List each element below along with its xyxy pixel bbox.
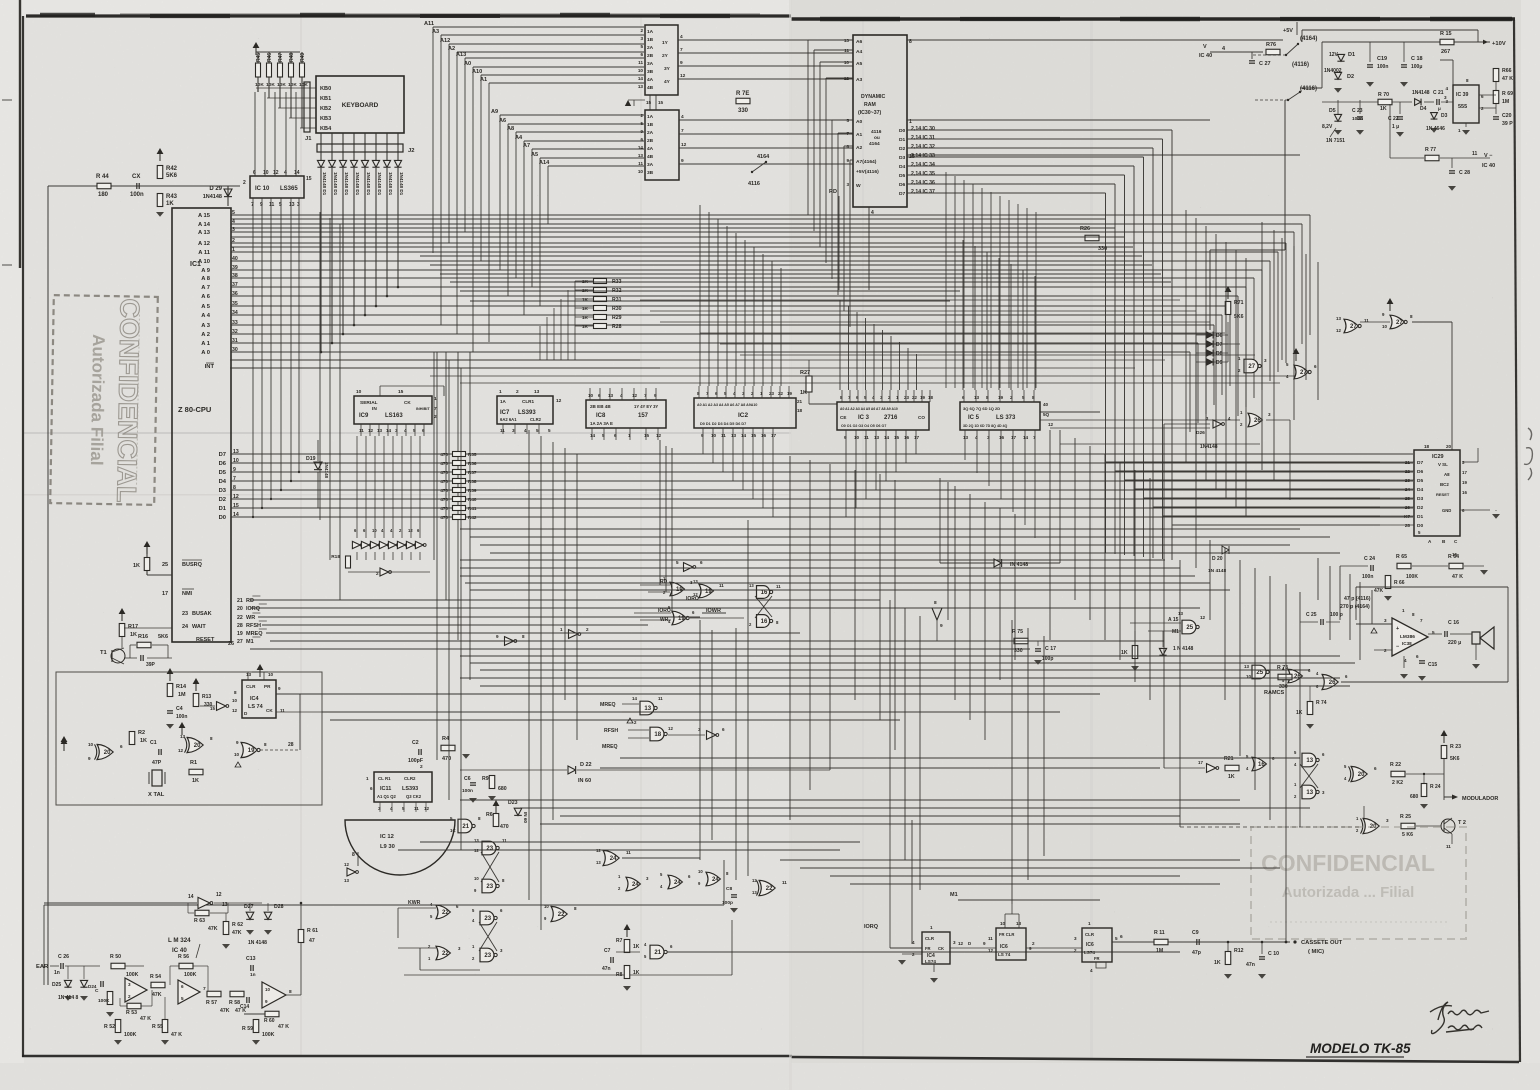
- R53 47K feedback: [127, 1003, 141, 1009]
- R26 330 above IC2: [1085, 235, 1099, 241]
- svg-text:R 57: R 57: [206, 1000, 217, 1006]
- svg-text:3: 3: [1074, 936, 1077, 941]
- svg-text:RFSH: RFSH: [604, 728, 618, 734]
- svg-text:1: 1: [499, 389, 502, 395]
- svg-text:4A: 4A: [647, 77, 654, 83]
- svg-text:5: 5: [640, 44, 643, 49]
- svg-text:KB1: KB1: [320, 96, 331, 102]
- R4 470: [441, 745, 455, 751]
- svg-text:A 12: A 12: [198, 241, 210, 247]
- svg-text:4: 4: [390, 806, 393, 811]
- svg-text:47: 47: [309, 938, 315, 944]
- R23 5K6: [1441, 746, 1447, 759]
- svg-text:PR: PR: [264, 684, 271, 689]
- svg-text:9: 9: [88, 756, 91, 761]
- svg-text:R29: R29: [612, 315, 622, 321]
- svg-text:1M: 1M: [1502, 99, 1509, 105]
- inverter 14 tape in: [198, 897, 210, 908]
- R7E 330 resistor: [736, 98, 750, 104]
- svg-text:C14: C14: [240, 1004, 249, 1010]
- svg-text:1Y 4Y EY 3Y: 1Y 4Y EY 3Y: [634, 404, 658, 409]
- OR gate 24a: [603, 850, 619, 865]
- svg-text:D1: D1: [219, 506, 227, 512]
- svg-text:IN 60: IN 60: [523, 812, 528, 823]
- svg-text:R 60: R 60: [264, 1018, 275, 1024]
- svg-text:13: 13: [289, 202, 295, 208]
- svg-text:IC 40: IC 40: [172, 947, 187, 954]
- C20 39P: [1493, 116, 1499, 118]
- svg-text:R7: R7: [616, 938, 623, 944]
- svg-text:100n: 100n: [1362, 574, 1373, 580]
- svg-text:D0: D0: [219, 515, 226, 521]
- svg-text:11: 11: [1472, 151, 1478, 157]
- NAND 13a: [1302, 753, 1316, 767]
- svg-text:19: 19: [237, 631, 243, 637]
- svg-text:1K: 1K: [1296, 710, 1303, 716]
- svg-text:D6: D6: [899, 182, 906, 188]
- R58 47K: [230, 991, 244, 997]
- svg-text:IC38: IC38: [1402, 641, 1412, 646]
- svg-text:12: 12: [556, 398, 562, 404]
- svg-text:CLR2: CLR2: [530, 417, 542, 422]
- svg-text:A4: A4: [515, 135, 523, 141]
- R27 1K left of IC3: [806, 376, 812, 392]
- svg-text:1K: 1K: [130, 632, 137, 638]
- svg-text:1: 1: [628, 433, 631, 438]
- svg-text:C 16: C 16: [1448, 620, 1459, 626]
- svg-text:R45: R45: [256, 53, 262, 62]
- svg-text:INHIBIT: INHIBIT: [416, 407, 430, 411]
- svg-text:8: 8: [289, 989, 292, 995]
- svg-text:19: 19: [920, 395, 925, 400]
- svg-text:27: 27: [1248, 364, 1255, 370]
- svg-text:21: 21: [797, 399, 803, 404]
- svg-text:16: 16: [761, 590, 768, 596]
- svg-text:11: 11: [844, 48, 849, 53]
- svg-text:40: 40: [1043, 402, 1049, 407]
- svg-text:R26: R26: [1080, 226, 1090, 232]
- svg-text:13: 13: [1306, 790, 1313, 796]
- svg-text:LS393: LS393: [402, 786, 418, 792]
- svg-text:15: 15: [646, 100, 652, 105]
- inverter 17 after RFSH: [707, 731, 716, 740]
- XOR 20 right: [1351, 766, 1367, 781]
- svg-text:A 0: A 0: [201, 350, 210, 356]
- svg-text:15: 15: [894, 435, 900, 440]
- svg-text:D7: D7: [219, 452, 226, 458]
- svg-text:A6: A6: [856, 39, 863, 45]
- svg-text:11: 11: [864, 435, 869, 440]
- svg-text:6: 6: [370, 786, 373, 791]
- svg-text:IC 5: IC 5: [968, 415, 980, 421]
- gate 2-1 inverter below: [380, 568, 389, 576]
- NAND 27c top: [1344, 319, 1358, 333]
- svg-text:6: 6: [614, 433, 617, 438]
- svg-text:A0 A1 A2 A3 A4 A5 A6 A7 A8 A9: A0 A1 A2 A3 A4 A5 A6 A7 A8 A9 A10: [840, 407, 898, 411]
- svg-text:D1: D1: [1417, 514, 1423, 520]
- svg-text:R17: R17: [128, 624, 138, 630]
- svg-text:9: 9: [681, 158, 684, 164]
- keyboard column lines to J2: [320, 133, 322, 160]
- svg-text:16: 16: [1462, 490, 1467, 495]
- svg-text:R 77: R 77: [1425, 147, 1436, 153]
- R13 330: [193, 694, 199, 707]
- horizontal lines interleaved in address band: [231, 218, 1106, 220]
- svg-text:R14: R14: [176, 684, 187, 690]
- svg-text:1B: 1B: [647, 37, 654, 43]
- svg-text:12: 12: [1336, 328, 1341, 333]
- svg-text:27: 27: [1350, 324, 1357, 330]
- svg-text:12V: 12V: [1329, 52, 1339, 58]
- svg-text:3: 3: [640, 36, 643, 41]
- svg-text:8: 8: [210, 736, 213, 741]
- svg-text:14: 14: [741, 433, 747, 438]
- clock output dashed to CPU pin 6: [260, 749, 300, 751]
- svg-text:1: 1: [560, 627, 563, 632]
- svg-text:13: 13: [638, 84, 644, 89]
- svg-text:O0 O1 O2 O3 O4 O5 O6 O7: O0 O1 O2 O3 O4 O5 O6 O7: [841, 424, 886, 428]
- svg-text:10K: 10K: [288, 82, 297, 88]
- svg-text:3: 3: [1386, 818, 1389, 823]
- svg-text:24: 24: [712, 877, 719, 883]
- svg-text:20: 20: [194, 743, 201, 749]
- svg-text:2Y: 2Y: [662, 53, 669, 59]
- svg-text:LS 373: LS 373: [996, 415, 1016, 421]
- svg-text:CLR: CLR: [1085, 932, 1095, 937]
- svg-text:17: 17: [162, 591, 168, 597]
- svg-text:IC 40: IC 40: [1482, 163, 1495, 169]
- svg-text:9: 9: [983, 941, 986, 946]
- svg-text:R 69: R 69: [1502, 91, 1513, 97]
- svg-text:100 p: 100 p: [1330, 612, 1343, 618]
- svg-text:R 25: R 25: [1400, 814, 1411, 820]
- svg-text:CK: CK: [938, 946, 944, 951]
- inverter 12-13 under arc: [347, 868, 356, 876]
- svg-text:17: 17: [914, 435, 920, 440]
- svg-text:13: 13: [596, 860, 601, 865]
- svg-text:47 p (4116): 47 p (4116): [1344, 596, 1371, 602]
- svg-text:12: 12: [680, 73, 686, 79]
- svg-text:R 75: R 75: [1012, 629, 1023, 635]
- svg-text:330: 330: [738, 108, 749, 114]
- svg-text:28: 28: [288, 742, 294, 748]
- R17 1K: [119, 624, 125, 637]
- svg-text:1K: 1K: [192, 778, 199, 784]
- D23 diode IN60: [514, 808, 522, 815]
- svg-text:1K: 1K: [166, 201, 174, 207]
- XOR gate 22d right: [759, 880, 775, 895]
- svg-text:10: 10: [638, 169, 644, 174]
- svg-text:19: 19: [998, 395, 1004, 400]
- right scanned page slightly darker: [791, 0, 1522, 1090]
- svg-text:47K: 47K: [208, 926, 218, 932]
- svg-text:7: 7: [681, 128, 684, 134]
- svg-text:C 10: C 10: [1268, 951, 1279, 957]
- svg-text:D6: D6: [1417, 469, 1423, 475]
- svg-text:ou: ou: [874, 136, 880, 141]
- svg-text:8: 8: [264, 742, 267, 747]
- svg-text:2716: 2716: [884, 415, 898, 421]
- svg-text:A9: A9: [491, 109, 498, 115]
- svg-text:1K: 1K: [633, 970, 640, 976]
- svg-text:A14: A14: [539, 160, 550, 166]
- svg-text:R 24: R 24: [1430, 784, 1441, 790]
- C10 47n: [1259, 956, 1265, 958]
- svg-text:11: 11: [638, 60, 643, 65]
- svg-text:39P: 39P: [146, 662, 156, 668]
- svg-text:CK: CK: [266, 708, 273, 713]
- C8 100p: [731, 894, 737, 896]
- right page verticals between RAM staircase and IC29: [1185, 210, 1187, 462]
- svg-text:1N4148 D1: 1N4148 D1: [399, 172, 404, 196]
- svg-text:R41: R41: [468, 506, 477, 511]
- svg-text:D4: D4: [899, 164, 906, 170]
- svg-text:A 13: A 13: [198, 230, 211, 236]
- svg-text:A0 A1 A2 A3 A4 A5 A6 A7 A8 A9A: A0 A1 A2 A3 A4 A5 A6 A7 A8 A9A10: [697, 403, 757, 407]
- keyboard diode verticals to address bus (staircase): [320, 168, 322, 352]
- svg-text:13: 13: [377, 428, 383, 433]
- svg-text:3: 3: [698, 727, 701, 732]
- svg-text:12: 12: [752, 878, 757, 883]
- svg-text:3D 2Q 1D 6D 7D 8Q 4D 4Q: 3D 2Q 1D 6D 7D 8Q 4D 4Q: [963, 424, 1008, 428]
- svg-text:100K: 100K: [1406, 574, 1418, 580]
- svg-text:2 K2: 2 K2: [1392, 780, 1403, 786]
- svg-text:R 65: R 65: [1396, 554, 1407, 560]
- svg-text:A 3: A 3: [201, 323, 211, 329]
- svg-text:IC6: IC6: [1086, 942, 1094, 948]
- svg-text:15: 15: [751, 433, 757, 438]
- svg-text:IC 10: IC 10: [255, 186, 270, 192]
- svg-text:C 23: C 23: [1352, 108, 1363, 114]
- upper-mid horizontal wires crossing page seam: [230, 359, 1165, 361]
- svg-text:R21: R21: [1224, 756, 1234, 762]
- svg-text:1: 1: [1458, 128, 1461, 133]
- svg-text:12: 12: [368, 428, 374, 433]
- svg-text:R 64: R 64: [1448, 554, 1459, 560]
- svg-text:T1: T1: [100, 650, 108, 656]
- svg-text:4B: 4B: [647, 85, 654, 91]
- svg-text:A6: A6: [499, 118, 506, 124]
- R59 100K: [253, 1020, 259, 1033]
- svg-text:C19: C19: [1377, 56, 1387, 62]
- svg-text:24: 24: [182, 624, 189, 630]
- svg-text:22: 22: [442, 951, 449, 957]
- svg-text:+10V: +10V: [1492, 41, 1506, 47]
- svg-text:28: 28: [1405, 523, 1411, 528]
- svg-text:1M: 1M: [1156, 948, 1163, 954]
- svg-text:1K: 1K: [140, 738, 147, 744]
- svg-text:5K6: 5K6: [1450, 756, 1460, 762]
- XOR gate 20b: [187, 737, 203, 752]
- op-amp 2: [178, 980, 200, 1004]
- svg-text:R30: R30: [612, 306, 622, 312]
- svg-text:D 20: D 20: [1212, 556, 1223, 562]
- svg-text:2: 2: [912, 952, 915, 957]
- svg-text:2,14 IC 36: 2,14 IC 36: [911, 180, 935, 186]
- svg-text:2: 2: [420, 764, 423, 770]
- svg-text:FR: FR: [925, 946, 931, 951]
- NAND 27b: [1294, 365, 1308, 379]
- svg-text:47 K: 47 K: [171, 1032, 182, 1038]
- svg-text:9: 9: [701, 433, 704, 438]
- R12 1K: [1225, 952, 1231, 965]
- svg-text:R47: R47: [278, 53, 284, 62]
- svg-text:5: 5: [536, 428, 539, 433]
- svg-text:+: +: [1396, 626, 1399, 632]
- svg-text:21: 21: [654, 950, 661, 956]
- R60 feedback: [265, 1011, 279, 1017]
- svg-text:14: 14: [638, 145, 644, 150]
- svg-text:10: 10: [638, 68, 644, 73]
- svg-text:12: 12: [632, 393, 638, 398]
- R22 2K2: [1391, 771, 1405, 777]
- diode D29 1N4148: [224, 189, 232, 197]
- svg-text:D5: D5: [1329, 108, 1336, 114]
- svg-text:23: 23: [1405, 478, 1411, 483]
- IC10 LS365 buffer: [250, 176, 304, 198]
- svg-text:D3: D3: [219, 488, 227, 494]
- svg-text:6: 6: [640, 137, 643, 142]
- C cap 39P: [140, 655, 142, 661]
- svg-text:C 24: C 24: [1364, 556, 1375, 562]
- svg-text:47p: 47p: [1192, 950, 1201, 956]
- svg-text:100K: 100K: [124, 1032, 137, 1038]
- svg-text:MODULADOR: MODULADOR: [1462, 796, 1498, 802]
- KWR gate 22: [436, 905, 450, 919]
- svg-text:16: 16: [1258, 762, 1265, 768]
- NAND 23b pair lower: [480, 911, 494, 925]
- svg-text:LS393: LS393: [518, 410, 536, 416]
- svg-text:1N 7151: 1N 7151: [1326, 138, 1345, 144]
- svg-text:12: 12: [344, 862, 349, 867]
- svg-text:R13: R13: [202, 694, 211, 700]
- svg-text:26: 26: [228, 641, 234, 647]
- svg-text:D7: D7: [1216, 342, 1223, 348]
- svg-text:1N 4148: 1N 4148: [248, 940, 267, 946]
- svg-text:8: 8: [574, 906, 577, 911]
- svg-text:8: 8: [1032, 395, 1035, 400]
- svg-text:2,14 IC 37: 2,14 IC 37: [911, 189, 935, 195]
- svg-text:6: 6: [1314, 364, 1317, 369]
- svg-text:C 27: C 27: [1259, 61, 1271, 67]
- speaker: [1472, 627, 1494, 649]
- OR gate 24b: [626, 877, 640, 891]
- svg-text:470: 470: [440, 452, 448, 457]
- svg-text:10: 10: [265, 987, 270, 992]
- IC39 555 timer box: [1453, 85, 1479, 123]
- svg-text:8: 8: [522, 634, 525, 639]
- R61 47: [298, 930, 304, 943]
- svg-text:17: 17: [1011, 435, 1017, 440]
- R75 330 and C17 100p: [1014, 638, 1028, 644]
- svg-text:28: 28: [237, 623, 243, 629]
- svg-text:10: 10: [1382, 324, 1387, 329]
- svg-text:100K: 100K: [126, 972, 139, 978]
- svg-text:(4116): (4116): [1292, 62, 1309, 68]
- XOR 27d top: [1390, 315, 1404, 329]
- svg-text:3: 3: [297, 202, 300, 208]
- C24 R65 R66b R64 row below IC29: [1370, 565, 1372, 571]
- svg-text:R 66: R 66: [1394, 580, 1405, 586]
- IC6 LS74 box 2: [996, 928, 1026, 960]
- KEYBOARD box: [316, 76, 404, 133]
- svg-text:D4: D4: [219, 479, 227, 485]
- svg-text:6: 6: [846, 144, 849, 149]
- C25 100p: [1320, 619, 1322, 625]
- IC9 LS163 serial box: [354, 396, 432, 424]
- svg-text:3: 3: [378, 806, 381, 811]
- svg-text:L M 324: L M 324: [168, 937, 191, 944]
- C14: [246, 997, 248, 1003]
- svg-text:11: 11: [1446, 844, 1451, 849]
- svg-text:21: 21: [1405, 460, 1411, 465]
- svg-text:3: 3: [846, 182, 849, 187]
- svg-text:Autorizada Filial: Autorizada Filial: [87, 334, 108, 466]
- svg-text:LS365: LS365: [280, 186, 298, 192]
- svg-text:5: 5: [413, 428, 416, 433]
- svg-text:C13: C13: [246, 956, 256, 962]
- wires connecting 24 row: [622, 857, 700, 859]
- svg-text:1K: 1K: [1214, 960, 1221, 966]
- svg-text:47 K: 47 K: [1452, 574, 1463, 580]
- svg-text:1N4148 D1: 1N4148 D1: [366, 172, 371, 196]
- svg-text:24: 24: [674, 880, 681, 886]
- svg-text:1K: 1K: [582, 297, 589, 303]
- svg-text:R 54: R 54: [150, 974, 161, 980]
- left page top border: [26, 14, 791, 17]
- svg-text:A 2: A 2: [201, 332, 210, 338]
- svg-text:1: 1: [366, 776, 369, 781]
- address feed staircase up to RAM left pins: [807, 40, 809, 215]
- svg-text:1: 1: [930, 925, 933, 930]
- loop wires around latches: [399, 901, 401, 903]
- connector J1: [304, 82, 310, 132]
- svg-text:C20: C20: [1502, 113, 1512, 119]
- svg-text:2,14 IC 31: 2,14 IC 31: [911, 135, 935, 141]
- svg-text:10: 10: [372, 528, 377, 533]
- svg-text:20: 20: [104, 750, 111, 756]
- svg-text:15: 15: [658, 100, 664, 105]
- svg-text:D1: D1: [899, 137, 906, 143]
- svg-text:10K: 10K: [255, 82, 264, 88]
- svg-text:D3: D3: [899, 155, 906, 161]
- svg-text:6: 6: [962, 395, 965, 400]
- svg-text:26: 26: [1405, 505, 1411, 510]
- svg-text:C4: C4: [176, 706, 183, 712]
- svg-text:IC4: IC4: [250, 696, 260, 702]
- svg-text:CLR2: CLR2: [404, 776, 416, 781]
- vertical feeds to FF row: [889, 826, 891, 948]
- svg-text:157: 157: [638, 413, 649, 419]
- svg-text:11: 11: [988, 936, 993, 941]
- R76: [1266, 49, 1280, 55]
- C6 100n: [470, 782, 476, 784]
- R2 1K: [129, 732, 135, 745]
- svg-text:D 29: D 29: [209, 186, 222, 192]
- svg-text:D23: D23: [508, 800, 518, 806]
- svg-text:KB4: KB4: [320, 126, 332, 132]
- svg-text:10K: 10K: [277, 82, 286, 88]
- svg-text:C9: C9: [1192, 930, 1199, 936]
- svg-text:11: 11: [269, 202, 275, 208]
- svg-text:1K: 1K: [1228, 774, 1235, 780]
- svg-text:X TAL: X TAL: [148, 792, 165, 798]
- svg-text:KEYBOARD: KEYBOARD: [342, 102, 379, 109]
- svg-text:10: 10: [268, 672, 274, 677]
- svg-text:R 63: R 63: [194, 918, 205, 924]
- svg-text:R46: R46: [267, 53, 273, 62]
- svg-text:2,14 IC 34: 2,14 IC 34: [911, 162, 935, 168]
